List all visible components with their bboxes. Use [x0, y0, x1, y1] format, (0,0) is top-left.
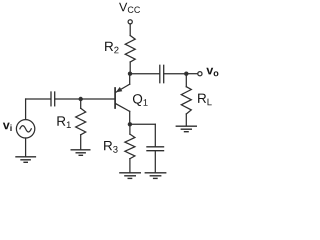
node emitter junction: [128, 122, 132, 126]
resistor R3: [125, 134, 135, 159]
wire RL node down to RL: [185, 76, 187, 87]
capacitor C3 top plate: [147, 146, 164, 148]
label R1: [57, 116, 70, 128]
node collector junction: [128, 72, 132, 76]
wire base node to Q1 base: [81, 98, 115, 100]
wire RL to ground: [185, 114, 187, 126]
ground vi: [16, 157, 35, 163]
node VCC terminal: [128, 20, 132, 24]
node base junction: [79, 97, 83, 101]
wire R3 to ground: [129, 159, 131, 173]
wire VCC to R2 top: [129, 24, 131, 36]
wire C1 to base node: [55, 98, 80, 100]
ground C3: [145, 173, 165, 179]
label vo: [206, 68, 218, 76]
ground R1: [71, 150, 90, 156]
wire R2 bottom to collector node: [129, 62, 131, 74]
ground RL: [176, 126, 196, 132]
label RL: [198, 94, 212, 106]
label R3: [104, 141, 118, 153]
source vi sine wave: [20, 126, 31, 132]
label vi: [3, 123, 12, 131]
source vi circle: [16, 120, 34, 138]
resistor R2: [125, 36, 135, 63]
transistor Q1 base bar: [114, 88, 116, 108]
transistor Q1 emitter lead diagonal: [116, 84, 130, 92]
wire emitter node down to R3: [129, 127, 131, 135]
capacitor C2 right plate: [163, 65, 165, 82]
node vo terminal: [198, 72, 202, 76]
wire emitter lead up to collector node: [129, 76, 131, 84]
wire collector node to C2: [130, 73, 159, 75]
resistor RL: [181, 87, 191, 114]
capacitor C3 bottom plate: [147, 150, 164, 152]
label VCC: [119, 3, 140, 13]
node RL junction: [184, 72, 188, 76]
wire RL node to vo terminal: [186, 73, 198, 75]
wire emitter node to bypass branch: [130, 123, 155, 125]
wire C3 to ground: [154, 151, 156, 172]
wire vi source to top rail: [25, 99, 27, 120]
transistor Q1 collector lead diagonal: [116, 104, 130, 112]
label R2: [105, 42, 118, 54]
wire base node down to R1: [80, 101, 82, 108]
wire R1 to ground: [80, 135, 82, 150]
transistor Q1 emitter arrow: [116, 87, 123, 92]
label Q1: [133, 94, 148, 106]
capacitor C1 left plate: [50, 92, 52, 106]
wire C2 to RL node: [164, 73, 186, 75]
capacitor C1 right plate: [54, 92, 56, 106]
wire top rail left to C1: [26, 98, 51, 100]
ground R3: [120, 173, 140, 179]
wire collector lead down to emitter node: [129, 111, 131, 124]
capacitor C2 left plate: [159, 65, 161, 82]
resistor R1: [76, 108, 86, 135]
wire bypass branch down to C3: [154, 124, 156, 146]
wire vi source to ground: [25, 138, 27, 156]
